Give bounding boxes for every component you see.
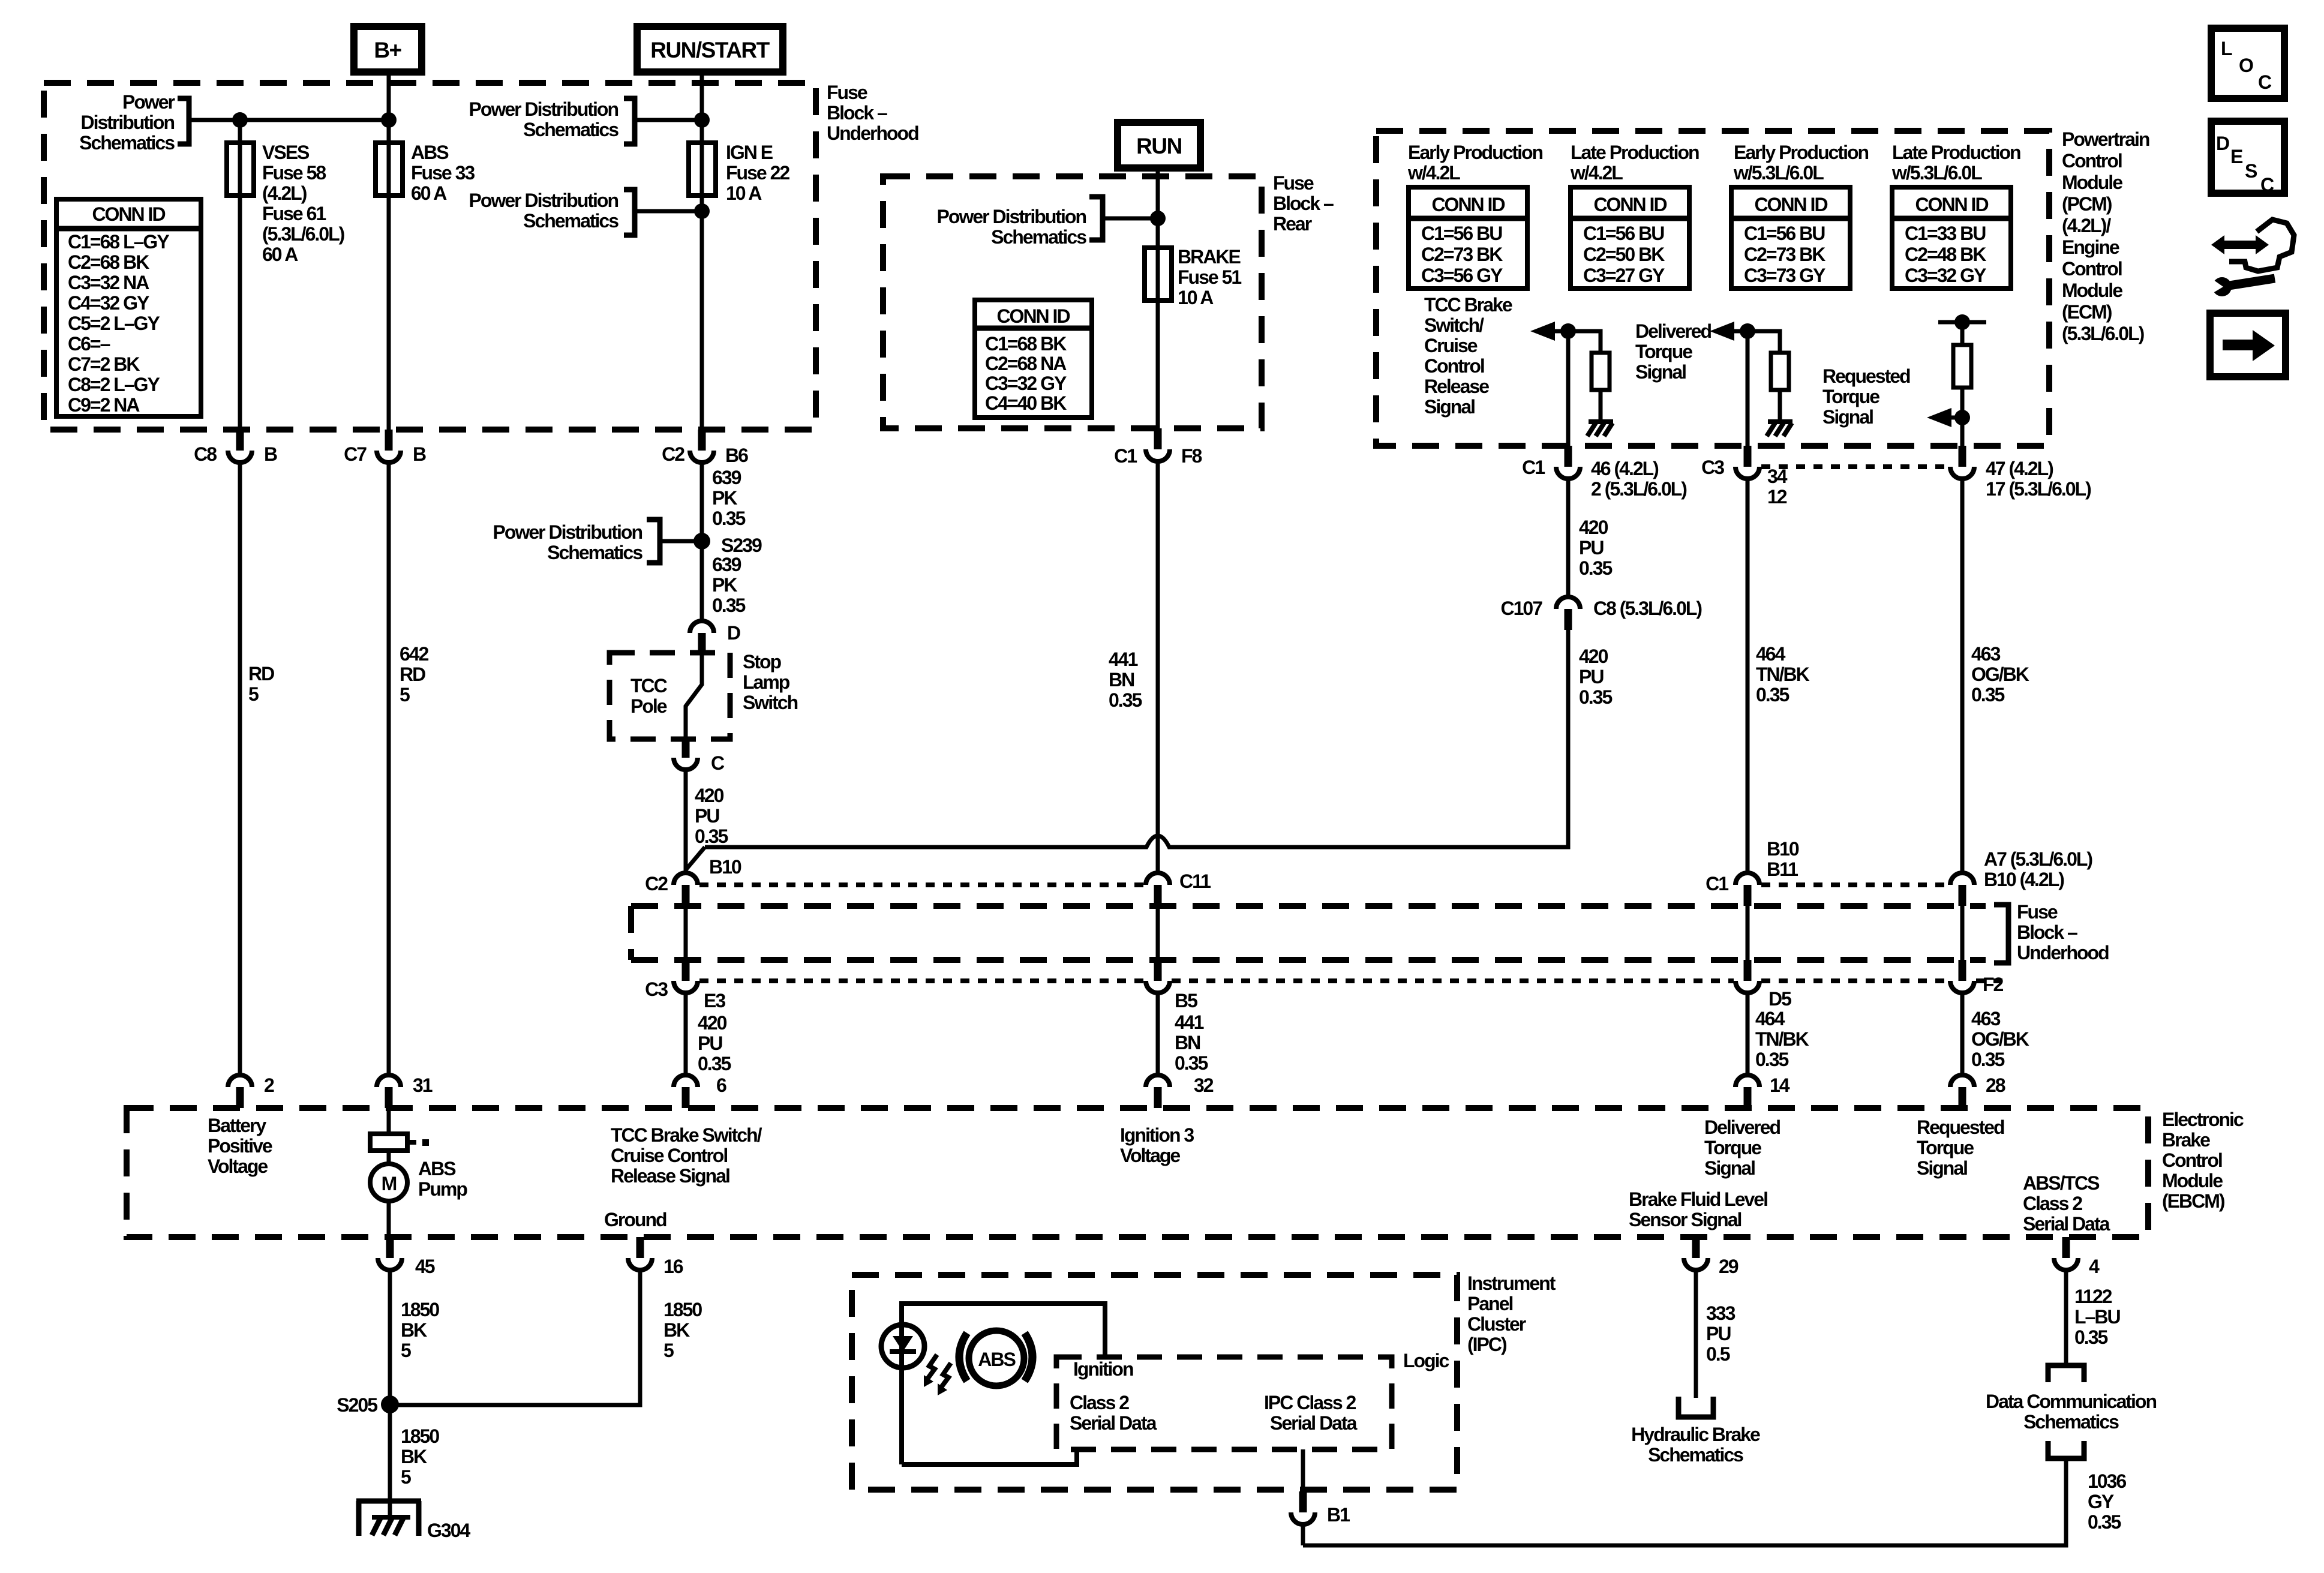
svg-text:B6: B6: [725, 445, 748, 466]
svg-text:L: L: [2221, 38, 2232, 59]
svg-text:D5: D5: [1768, 988, 1791, 1010]
svg-text:29: 29: [1719, 1256, 1739, 1277]
svg-text:S239: S239: [721, 535, 762, 556]
svg-text:C8: C8: [194, 443, 217, 465]
svg-text:TCCPole: TCCPole: [630, 675, 668, 717]
svg-text:Logic: Logic: [1403, 1350, 1449, 1371]
svg-text:C1=56 BUC2=50 BKC3=27 GY: C1=56 BUC2=50 BKC3=27 GY: [1583, 223, 1665, 286]
svg-text:CONN ID: CONN ID: [1915, 194, 1988, 215]
svg-text:D: D: [727, 622, 740, 644]
svg-text:IPC Class 2Serial Data: IPC Class 2Serial Data: [1264, 1392, 1358, 1434]
svg-text:C: C: [711, 752, 725, 774]
svg-text:C3: C3: [645, 978, 668, 1000]
svg-text:E: E: [2230, 146, 2243, 167]
svg-text:C2: C2: [645, 873, 668, 894]
svg-text:D: D: [2216, 133, 2229, 154]
svg-text:RUN: RUN: [1136, 134, 1182, 158]
svg-text:C11: C11: [1179, 870, 1211, 892]
svg-text:S205: S205: [337, 1394, 377, 1416]
svg-text:C2: C2: [662, 443, 684, 465]
svg-text:31: 31: [413, 1074, 433, 1096]
svg-text:B10B11: B10B11: [1767, 838, 1799, 880]
svg-text:O: O: [2239, 55, 2253, 76]
svg-text:Hydraulic BrakeSchematics: Hydraulic BrakeSchematics: [1631, 1424, 1760, 1466]
svg-text:CONN ID: CONN ID: [1754, 194, 1827, 215]
svg-text:CONN ID: CONN ID: [92, 203, 165, 225]
svg-text:6: 6: [716, 1074, 726, 1096]
svg-text:32: 32: [1194, 1074, 1214, 1096]
svg-text:M: M: [382, 1173, 397, 1194]
svg-text:RUN/START: RUN/START: [650, 38, 770, 62]
svg-text:B: B: [264, 443, 277, 465]
svg-text:B10: B10: [709, 856, 741, 878]
svg-text:B1: B1: [1327, 1504, 1350, 1526]
svg-text:C1=33 BUC2=48 BKC3=32 GY: C1=33 BUC2=48 BKC3=32 GY: [1905, 223, 1986, 286]
svg-text:Ground: Ground: [604, 1209, 666, 1230]
svg-text:C1: C1: [1522, 457, 1545, 478]
svg-text:CONN ID: CONN ID: [996, 305, 1070, 327]
svg-text:C1: C1: [1706, 873, 1728, 894]
svg-text:4: 4: [2089, 1256, 2100, 1277]
svg-text:G304: G304: [427, 1520, 470, 1541]
svg-text:ABS: ABS: [978, 1349, 1016, 1370]
svg-text:CONN ID: CONN ID: [1431, 194, 1505, 215]
svg-text:B: B: [413, 443, 426, 465]
svg-text:CONN ID: CONN ID: [1593, 194, 1667, 215]
svg-text:F2: F2: [1983, 974, 2004, 995]
svg-text:C8 (5.3L/6.0L): C8 (5.3L/6.0L): [1593, 598, 1702, 619]
svg-text:28: 28: [1986, 1074, 2005, 1096]
svg-text:14: 14: [1770, 1074, 1790, 1096]
svg-text:C1=68 BKC2=68 NAC3=32 GYC4=40: C1=68 BKC2=68 NAC3=32 GYC4=40 BK: [985, 333, 1067, 414]
svg-text:45: 45: [415, 1256, 435, 1277]
svg-text:C107: C107: [1501, 598, 1543, 619]
svg-text:C: C: [2260, 174, 2274, 196]
svg-text:S: S: [2245, 160, 2257, 182]
svg-text:C1=56 BUC2=73 BKC3=73 GY: C1=56 BUC2=73 BKC3=73 GY: [1744, 223, 1825, 286]
svg-text:Ignition: Ignition: [1073, 1358, 1133, 1380]
svg-text:C7: C7: [344, 443, 367, 465]
svg-text:B5: B5: [1175, 990, 1197, 1011]
svg-text:BatteryPositiveVoltage: BatteryPositiveVoltage: [208, 1115, 272, 1177]
svg-text:C1: C1: [1114, 445, 1137, 467]
svg-text:E3: E3: [704, 990, 725, 1011]
svg-text:16: 16: [663, 1256, 683, 1277]
svg-text:2: 2: [264, 1074, 274, 1096]
svg-text:F8: F8: [1181, 445, 1202, 467]
svg-text:C3: C3: [1701, 457, 1724, 478]
svg-text:3412: 3412: [1767, 466, 1788, 508]
svg-text:B+: B+: [374, 38, 401, 62]
svg-text:C1=56 BUC2=73 BKC3=56 GY: C1=56 BUC2=73 BKC3=56 GY: [1421, 223, 1503, 286]
svg-text:C: C: [2258, 71, 2272, 93]
